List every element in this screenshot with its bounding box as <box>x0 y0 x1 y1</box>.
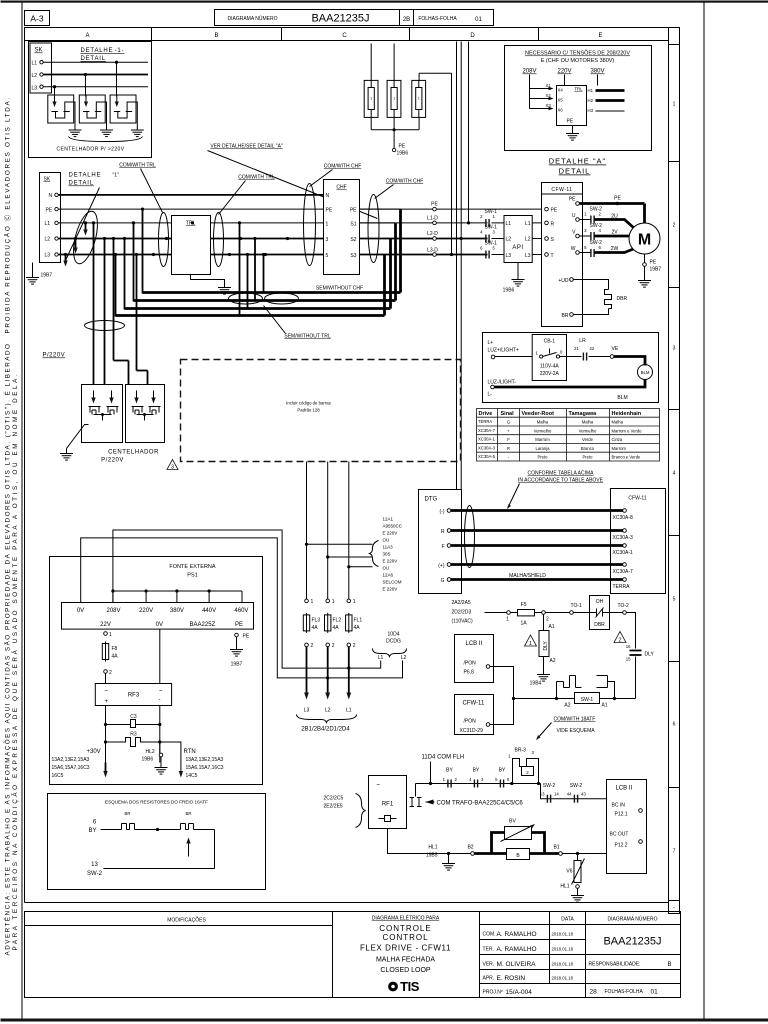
svg-text:PE: PE <box>235 622 243 628</box>
svg-text:Marrom: Marrom <box>535 437 550 442</box>
svg-text:X1: X1 <box>546 83 552 88</box>
svg-text:A-3: A-3 <box>30 14 44 24</box>
svg-text:CHF: CHF <box>336 185 346 191</box>
svg-text:C: C <box>342 33 347 39</box>
svg-text:L2: L2 <box>45 237 51 243</box>
svg-text:L1: L1 <box>346 708 352 714</box>
svg-text:LUZ-/LIGHT-: LUZ-/LIGHT- <box>488 380 517 386</box>
svg-text:TERRA: TERRA <box>478 419 492 424</box>
svg-text:Verde: Verde <box>582 437 594 442</box>
svg-text:~: ~ <box>377 783 381 789</box>
svg-text:2018.01.18: 2018.01.18 <box>552 962 574 967</box>
svg-text:COM/WITH TRL: COM/WITH TRL <box>238 175 275 181</box>
svg-text:DETALHE "A": DETALHE "A" <box>549 157 606 166</box>
svg-text:2D2/2D3: 2D2/2D3 <box>452 610 472 616</box>
svg-text:X4: X4 <box>558 88 564 93</box>
svg-text:R: R <box>507 446 510 451</box>
svg-text:M: M <box>638 232 651 249</box>
svg-text:TIS: TIS <box>400 979 420 994</box>
svg-text:2018.01.18: 2018.01.18 <box>552 976 574 981</box>
svg-text:F: F <box>441 544 444 550</box>
svg-text:14: 14 <box>554 792 559 797</box>
svg-text:3: 3 <box>171 465 174 471</box>
svg-text:COM TRAFO-BAA225C4/C5/C6: COM TRAFO-BAA225C4/C5/C6 <box>437 801 524 807</box>
svg-text:SW-2: SW-2 <box>87 871 103 877</box>
svg-text:(+): (+) <box>438 563 445 569</box>
svg-text:SW-1: SW-1 <box>485 225 498 231</box>
svg-text:CONTROL: CONTROL <box>382 933 428 942</box>
svg-text:13: 13 <box>91 862 98 868</box>
svg-text:CFW-11: CFW-11 <box>463 701 485 707</box>
svg-text:P/220V: P/220V <box>101 458 124 464</box>
svg-text:FOLHAS-FOLHA: FOLHAS-FOLHA <box>605 989 644 995</box>
svg-text:BR: BR <box>125 811 131 816</box>
svg-text:3: 3 <box>673 346 676 352</box>
svg-text:S1: S1 <box>350 222 356 228</box>
svg-text:X3: X3 <box>546 103 552 108</box>
svg-text:V6: V6 <box>566 869 572 875</box>
svg-text:DETAIL: DETAIL <box>81 56 106 62</box>
svg-text:A. RAMALHO: A. RAMALHO <box>497 946 537 953</box>
svg-text:Incluir código de barras: Incluir código de barras <box>286 401 331 406</box>
svg-text:Heidenhain: Heidenhain <box>612 411 642 417</box>
svg-text:PE: PE <box>326 208 333 214</box>
svg-text:-: - <box>159 698 161 704</box>
svg-text:VIDE ESQUEMA: VIDE ESQUEMA <box>557 728 596 734</box>
svg-text:19B7: 19B7 <box>650 267 662 273</box>
svg-text:43: 43 <box>581 792 586 797</box>
svg-text:MALHA/SHIELD: MALHA/SHIELD <box>509 573 546 579</box>
svg-text:DIAGRAMA NÚMERO: DIAGRAMA NÚMERO <box>227 15 277 22</box>
svg-text:A1: A1 <box>549 624 555 630</box>
svg-text:CONTROLE: CONTROLE <box>379 924 431 933</box>
svg-text:N: N <box>49 193 53 199</box>
svg-text:A: A <box>85 33 89 39</box>
svg-text:16C5: 16C5 <box>52 773 64 779</box>
svg-text:SK: SK <box>44 177 51 183</box>
svg-text:A1: A1 <box>602 703 608 709</box>
svg-text:LUZ+/LIGHT+: LUZ+/LIGHT+ <box>488 348 519 354</box>
svg-text:SW-2: SW-2 <box>570 783 583 789</box>
svg-text:PROIBIDA REPRODUÇÃO Ⓒ ELEVADOR: PROIBIDA REPRODUÇÃO Ⓒ ELEVADORES OTIS LT… <box>3 96 12 333</box>
svg-text:L2: L2 <box>401 655 407 661</box>
svg-text:XC30A-1: XC30A-1 <box>613 550 634 556</box>
svg-text:110V-4A: 110V-4A <box>540 364 559 370</box>
svg-text:BC OUT: BC OUT <box>610 832 629 838</box>
svg-text:S3: S3 <box>350 253 356 259</box>
svg-text:F8: F8 <box>112 646 118 652</box>
svg-text:XC31D-29: XC31D-29 <box>460 728 484 734</box>
svg-text:13A2,13E2,15A3: 13A2,13E2,15A3 <box>52 757 90 763</box>
svg-text:208V: 208V <box>522 69 536 75</box>
svg-text:CENTELHADOR: CENTELHADOR <box>108 450 159 456</box>
svg-text:TRL: TRL <box>186 221 196 227</box>
svg-text:4A: 4A <box>312 625 319 631</box>
svg-text:M. OLIVEIRA: M. OLIVEIRA <box>497 961 537 968</box>
svg-text:OU: OU <box>383 538 390 543</box>
svg-text:COM.: COM. <box>483 932 496 938</box>
svg-text:16: 16 <box>626 644 631 649</box>
svg-text:P12.1: P12.1 <box>615 812 628 818</box>
svg-text:L2: L2 <box>525 237 531 243</box>
svg-text:L3-D: L3-D <box>427 248 438 254</box>
svg-text:19B5: 19B5 <box>426 853 438 859</box>
svg-text:Tamagawa: Tamagawa <box>569 411 598 417</box>
svg-text:MODIFICAÇÕES: MODIFICAÇÕES <box>167 917 206 924</box>
svg-text:BY: BY <box>446 768 453 774</box>
svg-text:DTG: DTG <box>425 497 438 503</box>
svg-text:COM/WITH 18ATF: COM/WITH 18ATF <box>554 717 596 723</box>
svg-text:01: 01 <box>651 989 659 996</box>
svg-text:B: B <box>667 962 671 968</box>
svg-text:15A6,15A7,16C3: 15A6,15A7,16C3 <box>186 765 224 771</box>
svg-text:H3: H3 <box>588 108 594 113</box>
svg-text:380V: 380V <box>170 608 184 614</box>
svg-text:G: G <box>507 420 510 425</box>
svg-text:A9550CC: A9550CC <box>383 524 403 529</box>
svg-text:19B4: 19B4 <box>530 681 542 687</box>
svg-text:ESQUEMA DOS RESISTORES DO FREI: ESQUEMA DOS RESISTORES DO FREIO 16ATF <box>105 800 208 805</box>
svg-text:XC30A-1: XC30A-1 <box>478 437 496 442</box>
svg-text:BC IN: BC IN <box>612 803 626 809</box>
svg-text:4A: 4A <box>112 654 119 660</box>
svg-text:1: 1 <box>673 102 676 108</box>
svg-text:13: 13 <box>540 792 545 797</box>
svg-text:RF3: RF3 <box>128 693 140 699</box>
svg-text:1: 1 <box>506 617 509 623</box>
svg-text:X6: X6 <box>558 108 564 113</box>
svg-text:44: 44 <box>567 792 572 797</box>
svg-text:VER.: VER. <box>483 962 495 968</box>
svg-text:BLM: BLM <box>641 370 650 375</box>
svg-text:FOLHAS-FOLHA: FOLHAS-FOLHA <box>418 16 457 22</box>
svg-text:PE: PE <box>551 208 558 214</box>
svg-text:A2: A2 <box>550 658 556 664</box>
svg-text:DETAIL: DETAIL <box>559 167 591 176</box>
svg-text:H2: H2 <box>588 98 594 103</box>
svg-text:DIAGRAMA NÚMERO: DIAGRAMA NÚMERO <box>607 916 657 923</box>
svg-text:BR: BR <box>562 313 569 319</box>
svg-text:TERRA: TERRA <box>613 584 631 590</box>
svg-text:BAA21235J: BAA21235J <box>311 13 369 25</box>
svg-text:19B6: 19B6 <box>397 151 409 157</box>
svg-text:HL1: HL1 <box>428 845 437 851</box>
svg-text:DBR: DBR <box>594 622 605 628</box>
svg-text:6: 6 <box>673 722 676 728</box>
svg-text:A2: A2 <box>564 703 570 709</box>
svg-text:W: W <box>571 246 576 252</box>
svg-text:~: ~ <box>159 689 163 695</box>
svg-text:XC30A-7: XC30A-7 <box>478 428 496 433</box>
svg-text:Malha: Malha <box>612 420 624 425</box>
svg-text:PE: PE <box>569 197 576 203</box>
svg-text:5: 5 <box>326 253 329 259</box>
svg-text:PE: PE <box>399 144 406 150</box>
svg-text:MALHA FECHADA: MALHA FECHADA <box>376 957 435 964</box>
svg-text:13A2,13E2,15A3: 13A2,13E2,15A3 <box>186 757 224 763</box>
svg-text:RESPONSABILIDADE:: RESPONSABILIDADE: <box>589 962 641 968</box>
svg-text:14C5: 14C5 <box>186 773 198 779</box>
svg-text:B2: B2 <box>467 845 473 851</box>
svg-text:19B6: 19B6 <box>503 288 515 294</box>
svg-text:1: 1 <box>326 222 329 228</box>
svg-text:3: 3 <box>326 237 329 243</box>
svg-text:L1-D: L1-D <box>427 216 438 222</box>
svg-text:E. ROSIN: E. ROSIN <box>497 975 526 982</box>
svg-text:DCDG: DCDG <box>386 639 401 645</box>
svg-text:DBR: DBR <box>617 296 628 302</box>
svg-text:BV: BV <box>509 819 516 825</box>
svg-text:11D4 COM FLH: 11D4 COM FLH <box>422 755 465 761</box>
svg-text:/PON: /PON <box>464 719 477 725</box>
svg-text:208V: 208V <box>106 608 120 614</box>
svg-text:L3: L3 <box>525 253 531 259</box>
svg-text:L2: L2 <box>325 708 331 714</box>
svg-text:PE: PE <box>243 634 250 640</box>
svg-text:L-: L- <box>488 392 493 398</box>
svg-text:L3: L3 <box>304 708 310 714</box>
svg-text:LR: LR <box>579 338 586 344</box>
svg-text:LCB II: LCB II <box>466 641 483 647</box>
svg-text:L1: L1 <box>378 655 384 661</box>
svg-text:HL2: HL2 <box>146 749 155 755</box>
svg-text:7: 7 <box>673 849 676 855</box>
svg-text:2018.01.18: 2018.01.18 <box>552 947 574 952</box>
svg-text:BAA225Z: BAA225Z <box>190 622 216 628</box>
svg-text:+30V: +30V <box>87 749 101 755</box>
svg-text:X2: X2 <box>546 93 552 98</box>
svg-text:Preto: Preto <box>537 455 548 460</box>
svg-text:2: 2 <box>109 670 112 676</box>
svg-text:E 220V: E 220V <box>383 587 398 592</box>
svg-text:TO-1: TO-1 <box>571 603 583 609</box>
svg-text:L2: L2 <box>506 237 512 243</box>
svg-text:HL1: HL1 <box>560 884 569 890</box>
svg-text:+UD: +UD <box>558 278 569 284</box>
svg-text:OH: OH <box>596 599 604 605</box>
svg-text:28: 28 <box>590 989 598 996</box>
svg-text:L3: L3 <box>32 86 38 92</box>
svg-text:PE: PE <box>614 196 621 202</box>
svg-text:DLY: DLY <box>645 652 655 658</box>
svg-text:FONTE EXTERNA: FONTE EXTERNA <box>169 564 215 570</box>
svg-text:SEM/WITHOUT CHF: SEM/WITHOUT CHF <box>316 286 363 292</box>
svg-text:BY: BY <box>499 768 506 774</box>
svg-text:0V: 0V <box>77 608 84 614</box>
svg-text:CENTELHADOR P/ >220V: CENTELHADOR P/ >220V <box>57 147 125 153</box>
svg-text:1: 1 <box>109 632 112 638</box>
svg-text:2: 2 <box>546 617 549 623</box>
svg-text:22: 22 <box>590 346 595 351</box>
svg-text:19B7: 19B7 <box>231 662 243 668</box>
svg-text:APR.: APR. <box>483 976 495 982</box>
svg-text:Marrom: Marrom <box>612 446 627 451</box>
svg-text:15A6,15A7,16C3: 15A6,15A7,16C3 <box>52 765 90 771</box>
svg-text:B: B <box>214 33 218 39</box>
svg-text:FLEX DRIVE - CFW11: FLEX DRIVE - CFW11 <box>360 944 451 953</box>
svg-text:L1: L1 <box>32 61 38 67</box>
svg-text:ADVERTÊNCIA: ESTE TRABALHO E A: ADVERTÊNCIA: ESTE TRABALHO E AS INFORMAÇ… <box>3 343 12 956</box>
svg-text:SEM/WITHOUT TRL: SEM/WITHOUT TRL <box>284 334 330 340</box>
svg-text:PARA TERCEIROS NA CONDIÇÃO EXP: PARA TERCEIROS NA CONDIÇÃO EXPRESSA DE Q… <box>10 372 19 951</box>
svg-text:/PON: /PON <box>464 661 477 667</box>
svg-text:19B6: 19B6 <box>142 757 154 763</box>
svg-text:+: + <box>105 699 109 705</box>
svg-text:DATA: DATA <box>561 917 574 923</box>
svg-text:(110VAC): (110VAC) <box>452 619 474 625</box>
svg-text:11A3: 11A3 <box>383 545 394 550</box>
svg-text:Padrão 128: Padrão 128 <box>297 408 320 413</box>
svg-text:SELCOM: SELCOM <box>383 580 402 585</box>
svg-text:P12.2: P12.2 <box>615 843 628 849</box>
svg-text:PE: PE <box>650 260 657 266</box>
svg-text:COM/WITH TRL: COM/WITH TRL <box>119 163 156 169</box>
svg-text:X5: X5 <box>558 98 564 103</box>
svg-text:Branco: Branco <box>581 446 595 451</box>
svg-text:B1: B1 <box>553 845 559 851</box>
svg-text:5: 5 <box>673 597 676 603</box>
svg-text:2: 2 <box>618 638 621 644</box>
svg-text:D: D <box>470 33 475 39</box>
svg-text:380V: 380V <box>590 69 604 75</box>
svg-text:TO-2: TO-2 <box>618 603 630 609</box>
svg-text:DLY: DLY <box>543 640 549 650</box>
svg-text:BY: BY <box>88 828 96 834</box>
svg-text:PE: PE <box>431 202 438 208</box>
svg-text:BAA21235J: BAA21235J <box>603 936 661 948</box>
svg-text:4A: 4A <box>333 625 340 631</box>
svg-text:PE: PE <box>350 208 357 214</box>
svg-text:API: API <box>512 245 523 251</box>
svg-text:XC30A-3: XC30A-3 <box>613 535 634 541</box>
svg-text:A. RAMALHO: A. RAMALHO <box>497 931 537 938</box>
svg-text:L2-D: L2-D <box>427 231 438 237</box>
svg-text:21: 21 <box>574 346 579 351</box>
svg-text:Preto: Preto <box>582 455 593 460</box>
svg-text:FL3: FL3 <box>312 618 321 624</box>
svg-text:220V: 220V <box>557 69 571 75</box>
svg-text:VER DETALHE/SEE DETAIL "A": VER DETALHE/SEE DETAIL "A" <box>210 144 283 150</box>
svg-text:R3: R3 <box>130 732 137 738</box>
svg-text:0V: 0V <box>156 622 163 628</box>
svg-text:Vermelho: Vermelho <box>534 429 552 434</box>
svg-text:XC30A-7: XC30A-7 <box>613 569 634 575</box>
svg-text:220V: 220V <box>139 608 153 614</box>
svg-text:L1: L1 <box>525 221 531 227</box>
svg-text:NECESSARIO C/ TENSÕES DE 208/2: NECESSARIO C/ TENSÕES DE 208/220V <box>525 50 630 57</box>
svg-text:L1: L1 <box>45 221 51 227</box>
svg-text:L1: L1 <box>506 221 512 227</box>
svg-text:12A6: 12A6 <box>383 573 394 578</box>
svg-text:2C2/2C5: 2C2/2C5 <box>324 796 344 802</box>
svg-text:DETAIL: DETAIL <box>69 181 94 187</box>
svg-text:OU: OU <box>383 566 390 571</box>
svg-text:TER.: TER. <box>483 947 494 953</box>
svg-text:CFW-11: CFW-11 <box>551 187 572 193</box>
svg-text:Branco e Verde: Branco e Verde <box>612 455 642 460</box>
svg-text:460V: 460V <box>234 608 248 614</box>
svg-text:440V: 440V <box>202 608 216 614</box>
svg-text:2: 2 <box>673 223 676 229</box>
svg-text:2018.01.18: 2018.01.18 <box>552 932 574 937</box>
svg-text:L3: L3 <box>45 253 51 259</box>
svg-text:F: F <box>507 437 510 442</box>
svg-text:30S: 30S <box>383 552 391 557</box>
svg-text:Marrom e Verde: Marrom e Verde <box>612 429 643 434</box>
svg-text:COM/WITH CHF: COM/WITH CHF <box>324 164 362 170</box>
svg-text:T: T <box>551 253 554 259</box>
svg-text:FL1: FL1 <box>354 618 363 624</box>
svg-text:(-): (-) <box>440 509 445 515</box>
svg-text:"1": "1" <box>113 173 120 179</box>
svg-text:E (CHF OU MOTORES 380V): E (CHF OU MOTORES 380V) <box>541 58 615 64</box>
svg-text:RTN: RTN <box>184 749 196 755</box>
svg-text:1: 1 <box>370 97 372 101</box>
svg-text:Sinal: Sinal <box>501 411 515 417</box>
svg-text:L3: L3 <box>506 253 512 259</box>
svg-text:LCB II: LCB II <box>616 786 633 792</box>
svg-text:PROJ.Nº: PROJ.Nº <box>483 990 503 996</box>
svg-text:BY: BY <box>473 768 480 774</box>
svg-text:CB-1: CB-1 <box>544 339 556 345</box>
svg-text:PS1: PS1 <box>187 573 197 579</box>
svg-text:01: 01 <box>475 17 482 23</box>
svg-text:R: R <box>441 529 445 535</box>
svg-text:PE: PE <box>567 119 574 125</box>
svg-text:1: 1 <box>529 641 532 647</box>
svg-text:IN ACCORDANCE TO TABLE ABOVE: IN ACCORDANCE TO TABLE ABOVE <box>518 478 604 484</box>
svg-text:E: E <box>598 33 602 39</box>
svg-text:BR-3: BR-3 <box>515 748 527 754</box>
svg-text:G: G <box>441 578 445 584</box>
svg-text:15: 15 <box>626 657 631 662</box>
svg-text:DIAGRAMA ELÉTRICO PARA: DIAGRAMA ELÉTRICO PARA <box>372 915 440 922</box>
svg-text:P6.8: P6.8 <box>464 670 475 676</box>
svg-text:SW-1: SW-1 <box>581 697 594 703</box>
svg-text:Vermelho: Vermelho <box>579 429 597 434</box>
svg-text:Malha: Malha <box>582 420 594 425</box>
svg-text:H1: H1 <box>588 88 594 93</box>
svg-text:DETALHE -1-: DETALHE -1- <box>81 48 125 54</box>
svg-text:220V-2A: 220V-2A <box>540 371 560 377</box>
svg-text:SK: SK <box>35 48 43 54</box>
svg-text:F5: F5 <box>521 602 527 608</box>
svg-text:XC30A-5: XC30A-5 <box>478 454 496 459</box>
svg-text:Cinza: Cinza <box>612 437 623 442</box>
svg-text:Laranja: Laranja <box>536 446 551 451</box>
svg-text:SW-2: SW-2 <box>543 783 556 789</box>
svg-text:XC30A-3: XC30A-3 <box>478 446 496 451</box>
svg-text:SW-1: SW-1 <box>485 241 498 247</box>
svg-text:2E2/2E5: 2E2/2E5 <box>324 804 343 810</box>
svg-text:2B: 2B <box>403 17 410 23</box>
svg-text:CONFORME TABELA ACIMA: CONFORME TABELA ACIMA <box>528 471 595 477</box>
svg-text:15/A-004: 15/A-004 <box>506 989 533 996</box>
svg-text:12A1: 12A1 <box>383 517 394 522</box>
svg-text:Drive: Drive <box>479 411 493 417</box>
svg-text:E 220V: E 220V <box>383 531 398 536</box>
svg-text:FL2: FL2 <box>333 618 342 624</box>
svg-text:P/220V: P/220V <box>43 353 66 359</box>
svg-text:PE: PE <box>46 208 53 214</box>
svg-text:DETALHE: DETALHE <box>69 173 102 179</box>
svg-text:4: 4 <box>673 471 676 477</box>
svg-text:S2: S2 <box>350 237 356 243</box>
svg-text:19B7: 19B7 <box>41 273 53 279</box>
svg-text:10D4: 10D4 <box>388 632 400 638</box>
svg-text:VE: VE <box>612 346 619 352</box>
svg-text:RF1: RF1 <box>382 802 394 808</box>
